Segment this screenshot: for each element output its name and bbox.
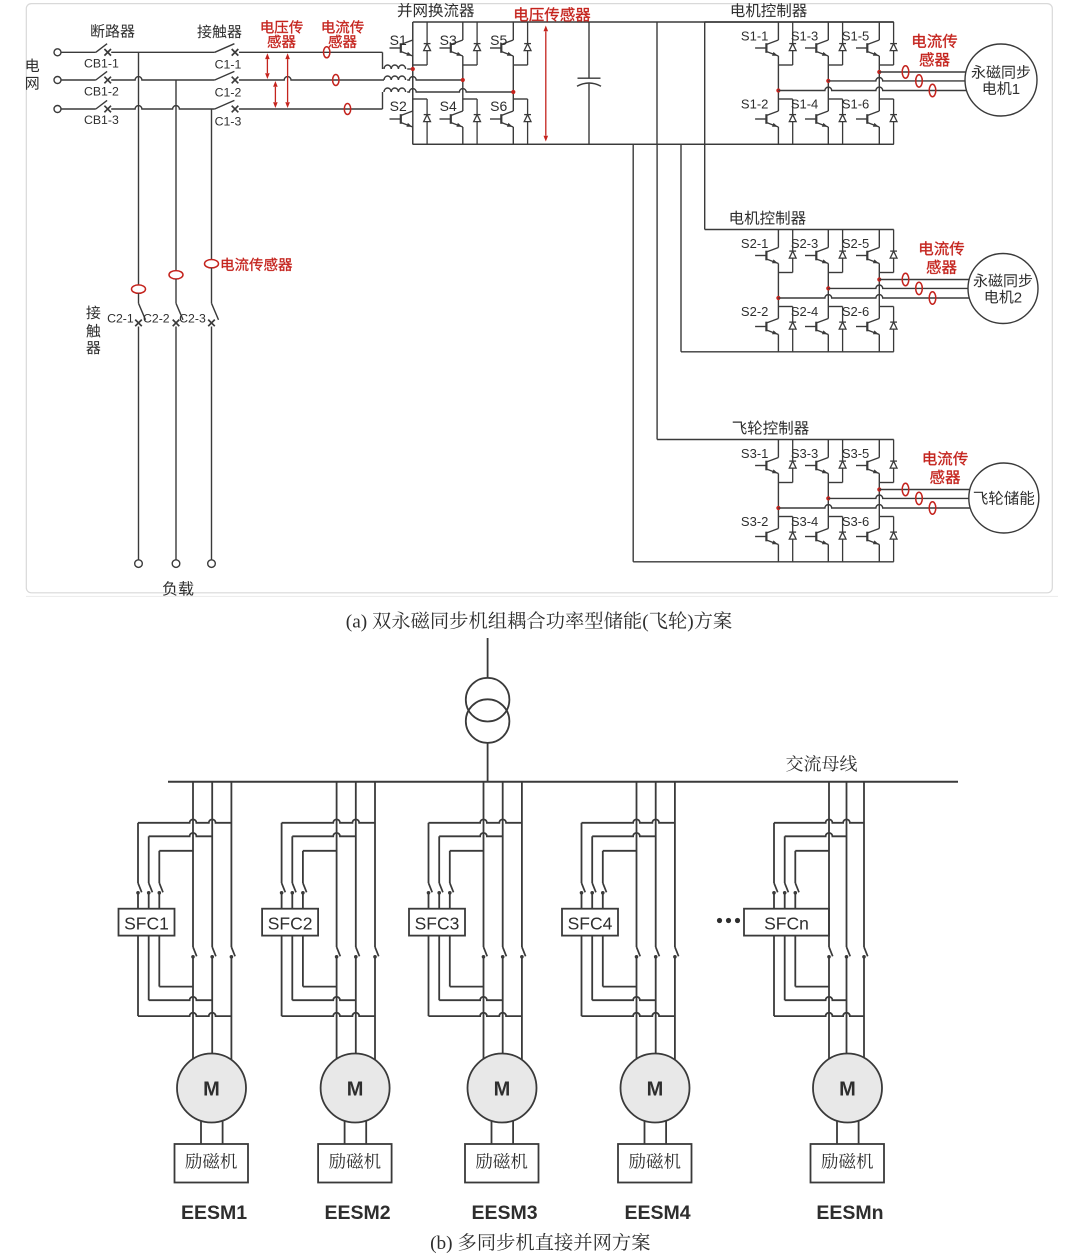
svg-text:1: 1 xyxy=(1012,81,1020,98)
svg-text:S2-3: S2-3 xyxy=(791,236,818,251)
svg-text:S5: S5 xyxy=(490,32,507,48)
svg-text:S1-2: S1-2 xyxy=(741,97,768,112)
svg-text:S3-5: S3-5 xyxy=(842,446,869,461)
svg-text:EESM4: EESM4 xyxy=(624,1202,690,1224)
svg-text:S3-1: S3-1 xyxy=(741,446,768,461)
svg-text:M: M xyxy=(494,1078,511,1100)
svg-text:EESMn: EESMn xyxy=(816,1202,883,1224)
svg-text:(b): (b) xyxy=(430,1233,452,1254)
svg-text:EESM2: EESM2 xyxy=(325,1202,391,1224)
svg-text:CB1-1: CB1-1 xyxy=(84,56,119,70)
svg-text:S2-5: S2-5 xyxy=(842,236,869,251)
svg-text:SFC1: SFC1 xyxy=(124,914,169,934)
svg-text:EESM1: EESM1 xyxy=(181,1202,247,1224)
svg-text:2: 2 xyxy=(1014,289,1022,306)
svg-text:S1-3: S1-3 xyxy=(791,28,818,43)
svg-text:S1-5: S1-5 xyxy=(842,28,869,43)
svg-text:S3-3: S3-3 xyxy=(791,446,818,461)
svg-text:S3: S3 xyxy=(440,32,457,48)
svg-text:C1-1: C1-1 xyxy=(215,58,242,72)
svg-text:): ) xyxy=(687,612,693,633)
svg-text:EESM3: EESM3 xyxy=(471,1202,537,1224)
svg-text:S2-6: S2-6 xyxy=(842,304,869,319)
svg-text:C2-2: C2-2 xyxy=(143,311,170,325)
svg-text:S3-6: S3-6 xyxy=(842,514,869,529)
svg-text:C2-3: C2-3 xyxy=(179,311,206,325)
svg-text:S1: S1 xyxy=(390,32,407,48)
svg-text:S2-1: S2-1 xyxy=(741,236,768,251)
svg-text:S3-2: S3-2 xyxy=(741,514,768,529)
svg-text:C1-2: C1-2 xyxy=(215,86,242,100)
svg-text:(a): (a) xyxy=(346,612,367,633)
svg-text:M: M xyxy=(347,1078,364,1100)
svg-text:C1-3: C1-3 xyxy=(215,114,242,128)
svg-text:S2-2: S2-2 xyxy=(741,304,768,319)
svg-text:M: M xyxy=(203,1078,220,1100)
svg-text:CB1-2: CB1-2 xyxy=(84,84,119,98)
svg-text:(: ( xyxy=(642,612,648,633)
svg-text:S1-4: S1-4 xyxy=(791,97,818,112)
svg-text:SFC4: SFC4 xyxy=(568,914,613,934)
svg-text:SFC3: SFC3 xyxy=(415,914,460,934)
svg-text:S4: S4 xyxy=(440,98,457,114)
svg-text:SFCn: SFCn xyxy=(764,914,809,934)
svg-text:S2: S2 xyxy=(390,98,407,114)
svg-text:S1-6: S1-6 xyxy=(842,97,869,112)
svg-text:S6: S6 xyxy=(490,98,507,114)
svg-text:S2-4: S2-4 xyxy=(791,304,818,319)
svg-text:M: M xyxy=(647,1078,664,1100)
svg-text:C2-1: C2-1 xyxy=(107,311,134,325)
svg-text:CB1-3: CB1-3 xyxy=(84,113,119,127)
svg-text:SFC2: SFC2 xyxy=(268,914,313,934)
svg-text:S3-4: S3-4 xyxy=(791,514,818,529)
svg-text:M: M xyxy=(839,1078,856,1100)
svg-text:S1-1: S1-1 xyxy=(741,28,768,43)
